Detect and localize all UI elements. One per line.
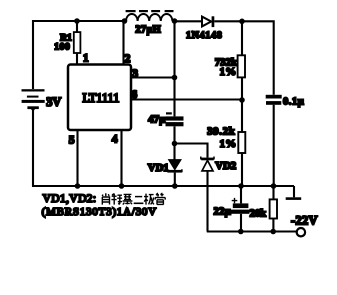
inductor L1 27uH (126, 10, 174, 35)
resistor R4 20k (250, 186, 277, 232)
wire battery minus + ground rail (33, 109, 294, 186)
svg-text:(MBRS130T3)1A/30V: (MBRS130T3)1A/30V (42, 206, 157, 218)
基 (123, 194, 133, 204)
wire SW column (173, 21, 175, 116)
node pin4 gnd (119, 183, 125, 189)
caption CJK 肖特基二极管 (102, 193, 165, 204)
node VD1 gnd (172, 183, 178, 189)
svg-text:-22V: -22V (291, 214, 318, 228)
svg-text:20k: 20k (250, 209, 266, 220)
node 732k top junction (239, 19, 245, 25)
wire pin 4 (120, 130, 122, 186)
svg-text:1: 1 (83, 52, 89, 64)
svg-text:5: 5 (69, 135, 75, 147)
wire top rail to diode (175, 20, 203, 22)
svg-text:VD1,VD2:: VD1,VD2: (43, 193, 97, 205)
node inductor left junction (122, 18, 128, 24)
node 39.2k gnd (238, 183, 244, 189)
ground (286, 186, 302, 200)
wire node A to VD2 (175, 144, 208, 158)
capacitor C2 22u (214, 186, 250, 232)
node inductor right junction (172, 18, 178, 24)
node A junction (172, 141, 178, 147)
svg-text:27μH: 27μH (135, 24, 161, 35)
svg-text:1N4148: 1N4148 (186, 30, 223, 41)
svg-text:VD2: VD2 (215, 160, 236, 172)
resistor R1 (54, 21, 80, 65)
battery B1 3V (22, 89, 62, 111)
wire pin 5 (76, 130, 78, 186)
svg-text:1%: 1% (220, 138, 237, 150)
svg-text:6: 6 (131, 89, 137, 101)
wire pin 3 (131, 76, 175, 78)
极 (144, 194, 148, 205)
capacitor C1 47u (148, 112, 183, 143)
svg-text:3: 3 (132, 68, 138, 80)
resistor R2 732k (215, 21, 245, 100)
terminal -22V (291, 214, 318, 237)
node pin5 gnd (75, 183, 81, 189)
diode VD1 (148, 144, 182, 187)
特 (111, 194, 116, 205)
svg-text:LT1111: LT1111 (83, 91, 120, 105)
node R1 top junction (74, 18, 80, 24)
op-amp U1 LT1111 (68, 65, 131, 131)
diode VD3 1N4148 (186, 16, 223, 41)
node 22u out (238, 229, 244, 235)
svg-text:3V: 3V (46, 95, 61, 109)
svg-text:100: 100 (54, 41, 70, 52)
svg-text:4: 4 (112, 134, 118, 146)
wire top rail right segment (214, 21, 273, 95)
二 (135, 196, 142, 198)
node pin3 junction (172, 75, 178, 81)
diode VD2 (201, 157, 236, 232)
svg-text:39.2k: 39.2k (207, 127, 235, 138)
wire pin 6 (131, 98, 242, 100)
node 0.1u gnd (271, 183, 277, 189)
管 (156, 193, 164, 196)
capacitor C3 0.1u (266, 95, 305, 186)
svg-text:VD1: VD1 (148, 162, 169, 174)
resistor R3 39.2k (207, 100, 245, 186)
wire output rail (207, 230, 297, 232)
肖 (102, 193, 109, 196)
svg-text:22μ: 22μ (214, 206, 231, 217)
svg-text:47μ: 47μ (148, 115, 165, 126)
node 20k out (270, 229, 276, 235)
svg-text:0.1μ: 0.1μ (283, 97, 304, 108)
wire top rail left + battery column top (33, 21, 125, 89)
wire pin 2 (122, 21, 124, 65)
node feedback junction (239, 97, 245, 103)
svg-text:1%: 1% (220, 66, 237, 78)
